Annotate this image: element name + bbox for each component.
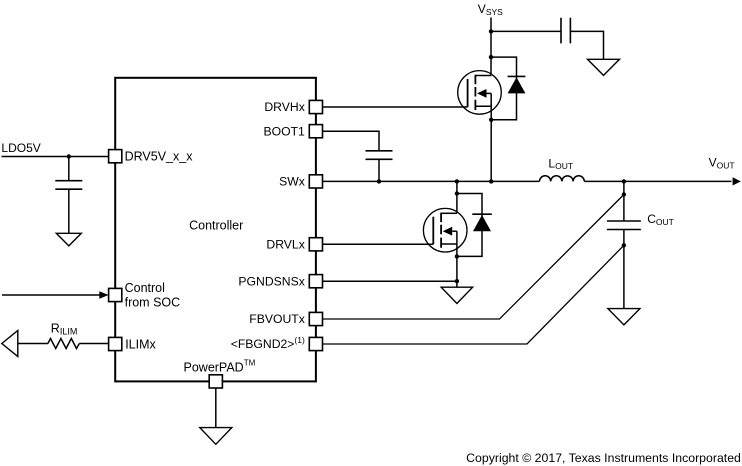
- svg-text:LDO5V: LDO5V: [1, 141, 40, 155]
- svg-text:<FBGND2>(1): <FBGND2>(1): [231, 335, 305, 351]
- node Q2 drain SW junction: [455, 179, 459, 183]
- svg-text:Controller: Controller: [189, 218, 243, 232]
- node VOUT arrow: [733, 177, 741, 185]
- node boot cap SW junction: [377, 179, 381, 183]
- node VOUT COUT junction: [622, 179, 626, 183]
- ground (PowerPAD): [200, 428, 232, 445]
- pin SWx: [309, 175, 322, 188]
- wire decoupling cap to ground: [570, 31, 603, 59]
- svg-text:Control: Control: [125, 281, 165, 295]
- transistor Q1 high-side MOSFET: [458, 71, 502, 115]
- diode D1 body diode Q1: [491, 57, 525, 120]
- diode D2 body diode Q2: [457, 194, 492, 257]
- node LDO5V junction: [67, 154, 71, 158]
- node PGNDSNS junction: [455, 279, 459, 283]
- pin PowerPAD: [209, 375, 222, 388]
- svg-text:ILIMx: ILIMx: [125, 338, 156, 352]
- wire LDO5V cap top lead: [68, 157, 70, 181]
- pin BOOT1: [309, 125, 322, 138]
- node Q2 diode bottom junction: [455, 254, 459, 258]
- pin DRV5V_x_x: [109, 150, 122, 163]
- pin DRVLx: [309, 238, 322, 251]
- node Q2 diode top junction: [455, 191, 459, 195]
- svg-text:SWx: SWx: [279, 175, 305, 189]
- svg-text:Copyright © 2017, Texas Instru: Copyright © 2017, Texas Instruments Inco…: [466, 451, 741, 465]
- wire Q2 drain up to SW: [456, 181, 458, 213]
- node Q1 diode bottom junction: [489, 118, 493, 122]
- pin Control from SOC: [109, 288, 122, 301]
- wire BOOT1 to bootstrap cap: [323, 131, 380, 151]
- wire FBVOUTx sense: [323, 195, 624, 320]
- wire PGNDSNSx: [323, 280, 457, 282]
- node VSYS decoupling junction: [489, 29, 493, 33]
- wire bootstrap cap to SW: [378, 159, 380, 181]
- wire arrow to resistor: [18, 343, 48, 345]
- wire DRVLx to Q2 gate: [323, 243, 434, 245]
- wire Control from SOC with arrow: [2, 294, 100, 296]
- wire Q2 body/source down to PGND: [456, 231, 458, 287]
- wire inductor to VOUT: [584, 180, 731, 182]
- ground (power stage): [441, 287, 472, 303]
- node Q1 source SW junction: [489, 179, 493, 183]
- resistor R_ILIM: [48, 339, 79, 349]
- controller U1 box: [115, 78, 316, 382]
- wire Q1 body/source down to SW: [490, 93, 492, 181]
- wire SWx node: [323, 180, 540, 182]
- transistor Q2 low-side MOSFET: [423, 208, 467, 252]
- pin DRVHx: [309, 100, 322, 113]
- pin FBVOUTx: [309, 312, 322, 325]
- ground (VSYS cap): [588, 59, 620, 75]
- capacitor C_OUT: [607, 221, 641, 230]
- wire VSYS to decoupling cap: [491, 30, 561, 32]
- capacitor C_VSYS: [561, 18, 570, 44]
- wire COUT to ground: [623, 230, 625, 309]
- capacitor C_LDO: [55, 181, 82, 190]
- svg-text:FBVOUTx: FBVOUTx: [249, 312, 305, 326]
- wire DRVHx to Q1 gate: [323, 106, 468, 108]
- node FBGND sense junction: [622, 243, 626, 247]
- wire resistor to ILIMx pin: [79, 343, 108, 345]
- svg-text:BOOT1: BOOT1: [263, 124, 305, 138]
- svg-text:DRVLx: DRVLx: [266, 238, 304, 252]
- pin PGNDSNSx: [309, 275, 322, 288]
- wire VSYS vertical to high FET drain: [490, 18, 492, 76]
- wire LDO5V to DRV5V_x_x pin: [2, 156, 109, 158]
- svg-text:DRVHx: DRVHx: [264, 100, 304, 114]
- node FBVOUT sense junction: [622, 192, 626, 196]
- inductor L_OUT: [540, 176, 585, 182]
- pin FBGND2 note 1: [309, 337, 322, 350]
- svg-text:from SOC: from SOC: [125, 295, 181, 309]
- ground (COUT): [608, 309, 640, 325]
- connector arrow (R_ILIM left): [2, 331, 18, 357]
- pin ILIMx: [109, 337, 122, 350]
- capacitor C_BOOT: [366, 151, 393, 160]
- wire LDO5V cap bottom lead: [68, 189, 70, 233]
- wire VOUT to COUT: [623, 181, 625, 221]
- svg-text:DRV5V_x_x: DRV5V_x_x: [125, 150, 194, 164]
- svg-text:PGNDSNSx: PGNDSNSx: [238, 274, 304, 288]
- wire FBGND2 sense: [323, 245, 624, 344]
- wire PowerPAD to ground: [215, 388, 217, 428]
- ground (LDO5V cap): [56, 233, 81, 246]
- node Q1 diode top junction: [489, 55, 493, 59]
